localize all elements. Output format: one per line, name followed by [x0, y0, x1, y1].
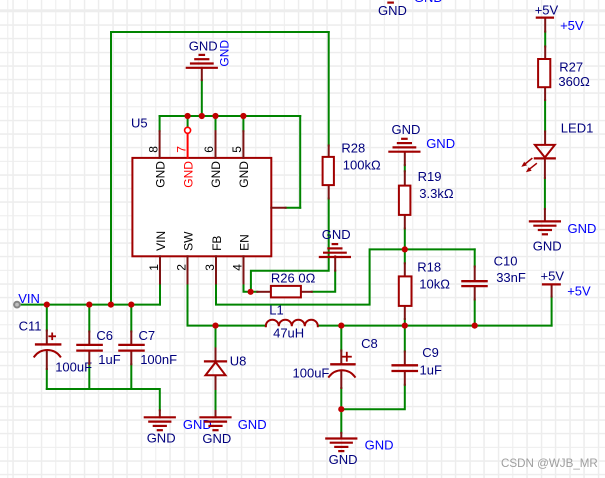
- svg-text:2: 2: [175, 264, 189, 271]
- svg-text:C7: C7: [139, 328, 156, 343]
- svg-text:GND: GND: [237, 161, 251, 188]
- pin 9 pad: [271, 207, 285, 209]
- wire C9 top lead: [404, 326, 406, 352]
- capacitor C6: [77, 328, 120, 367]
- resistor R27: [538, 47, 590, 101]
- inductor L1: [266, 303, 318, 341]
- wire LED column segments: [544, 32, 546, 209]
- net label GND right of U8: [238, 417, 267, 432]
- pin 4: [231, 234, 252, 283]
- wire C6 leads: [88, 305, 90, 389]
- power port +5V top: [535, 2, 559, 31]
- svg-text:10kΩ: 10kΩ: [419, 277, 450, 292]
- svg-text:6: 6: [202, 146, 216, 153]
- svg-text:R18: R18: [417, 260, 441, 275]
- net label GND right of C8 ground: [365, 438, 394, 453]
- junction dots VIN rail: [44, 302, 135, 308]
- svg-text:GND: GND: [365, 438, 394, 453]
- svg-text:C10: C10: [494, 253, 518, 268]
- svg-text:360Ω: 360Ω: [558, 74, 590, 89]
- wire pin6 stub: [215, 116, 217, 131]
- wire C10 leads: [474, 249, 476, 325]
- junction dots bus: [185, 113, 247, 119]
- svg-text:7: 7: [174, 146, 188, 153]
- wire GND bus above U5: [160, 115, 301, 117]
- wire R19 upper gap: [404, 165, 406, 249]
- net label +5V top: [560, 18, 584, 33]
- svg-text:EN: EN: [237, 234, 251, 251]
- pin 2: [175, 231, 196, 284]
- ground symbol below C8: [326, 433, 357, 467]
- pin 6: [202, 131, 223, 188]
- resistor R28: [323, 140, 381, 198]
- svg-text:R19: R19: [418, 169, 442, 184]
- pin 8: [146, 131, 167, 188]
- junction dot EN node: [248, 289, 254, 295]
- capacitor C9: [393, 345, 442, 385]
- wire C8 leads: [340, 326, 342, 433]
- svg-text:3: 3: [203, 264, 217, 271]
- wire output rail: [318, 325, 552, 327]
- svg-text:VIN: VIN: [154, 231, 168, 251]
- wire C11 leads: [46, 305, 48, 389]
- svg-text:47uH: 47uH: [273, 325, 304, 340]
- capacitor C7: [119, 328, 177, 367]
- wire R28 bottom loop to EN: [251, 199, 329, 292]
- wire top horizontal to R28: [111, 31, 329, 33]
- net label VIN with port dot: [14, 291, 40, 307]
- svg-text:C9: C9: [422, 345, 439, 360]
- resistor R18: [399, 260, 450, 320]
- wire SW node pin2: [188, 283, 266, 325]
- svg-text:8: 8: [146, 146, 160, 153]
- svg-text:VIN: VIN: [18, 291, 40, 306]
- svg-text:GND: GND: [147, 431, 176, 446]
- svg-text:C11: C11: [19, 318, 42, 333]
- svg-text:U5: U5: [131, 115, 148, 130]
- svg-text:GND: GND: [218, 40, 232, 67]
- designator U5: [131, 115, 148, 130]
- net label GND rotated: [218, 40, 232, 67]
- svg-text:4: 4: [231, 264, 245, 271]
- svg-text:GND: GND: [322, 227, 351, 242]
- net label GND left of U8: [183, 417, 212, 432]
- svg-text:3.3kΩ: 3.3kΩ: [419, 186, 454, 201]
- net label GND top-right cropped: [414, 0, 443, 5]
- svg-text:GND: GND: [209, 161, 223, 188]
- svg-text:1: 1: [147, 264, 161, 271]
- svg-text:1uF: 1uF: [98, 352, 120, 367]
- ground symbol above R26: [320, 227, 351, 270]
- svg-text:GND: GND: [189, 38, 218, 53]
- wire R26 right to ground: [312, 271, 335, 292]
- wire GND stem above U5: [201, 80, 203, 116]
- wire R28 top drop: [328, 32, 330, 146]
- svg-text:GND: GND: [181, 161, 195, 188]
- svg-text:GND: GND: [426, 136, 455, 151]
- ground symbol below input caps: [145, 410, 176, 445]
- net label GND right of LED ground: [568, 221, 597, 236]
- svg-text:GND: GND: [414, 0, 443, 5]
- svg-text:100kΩ: 100kΩ: [343, 158, 381, 173]
- svg-text:R26 0Ω: R26 0Ω: [271, 271, 316, 286]
- svg-text:100uF: 100uF: [293, 366, 330, 381]
- wire bus to pad pin: [286, 207, 301, 209]
- junction dot C8 ground node: [338, 406, 344, 412]
- svg-text:SW: SW: [181, 231, 195, 251]
- junction dot FB divider node: [402, 246, 408, 252]
- svg-text:+5V: +5V: [535, 2, 559, 17]
- wire +5V branch right: [551, 297, 553, 326]
- net label GND beside R19 ground: [426, 136, 455, 151]
- wire bus right vertical: [299, 116, 301, 208]
- pin 7 with unconnected circle: [174, 127, 195, 187]
- ground symbol top-right cropped: [378, 3, 407, 18]
- wire pin5 stub: [242, 116, 244, 131]
- wire EN pin4: [244, 283, 258, 291]
- wire FB net: [216, 249, 475, 304]
- net label +5V right: [567, 284, 591, 299]
- svg-text:5: 5: [230, 146, 244, 153]
- ground symbol below U8: [201, 411, 232, 446]
- pin 3: [203, 236, 224, 284]
- LED LED1: [521, 121, 593, 179]
- pin 1: [147, 231, 168, 284]
- svg-text:C8: C8: [361, 336, 378, 351]
- junction dots output rail: [212, 323, 477, 329]
- svg-text:CSDN @WJB_MR: CSDN @WJB_MR: [501, 457, 598, 470]
- wire C7 leads: [130, 305, 132, 389]
- svg-text:100nF: 100nF: [140, 352, 177, 367]
- svg-text:GND: GND: [202, 431, 231, 446]
- resistor R19: [399, 169, 454, 228]
- wire VIN rail: [17, 304, 160, 306]
- svg-text:GND: GND: [329, 452, 358, 467]
- op-amp U5 body: [132, 158, 271, 256]
- svg-text:+5V: +5V: [560, 18, 584, 33]
- wire R18 leads: [404, 249, 406, 325]
- svg-text:GND: GND: [533, 239, 562, 254]
- wire U8 branch: [215, 326, 217, 411]
- diode U8: [205, 348, 246, 389]
- power port +5V right: [541, 269, 565, 297]
- svg-text:L1: L1: [269, 303, 283, 318]
- svg-text:FB: FB: [210, 236, 224, 251]
- svg-text:GND: GND: [378, 3, 407, 18]
- svg-text:GND: GND: [392, 122, 421, 137]
- capacitor C11 polarized: [19, 318, 93, 374]
- svg-text:100uF: 100uF: [55, 359, 92, 374]
- capacitor C8 polarized: [293, 336, 378, 388]
- wire pin8 stub: [159, 116, 161, 131]
- ground symbol below LED1: [530, 209, 562, 254]
- svg-text:GND: GND: [238, 417, 267, 432]
- ground symbol above R19: [389, 122, 420, 165]
- svg-text:U8: U8: [230, 354, 247, 369]
- svg-text:GND: GND: [153, 161, 167, 188]
- wire VIN top-left rail vertical: [110, 32, 112, 305]
- svg-text:1uF: 1uF: [420, 362, 442, 377]
- svg-text:GND: GND: [568, 221, 597, 236]
- svg-text:+5V: +5V: [567, 284, 591, 299]
- svg-text:R28: R28: [341, 140, 365, 155]
- pin 5: [230, 131, 251, 188]
- wire C8 to C9 bottom: [341, 385, 405, 409]
- svg-text:C6: C6: [96, 328, 113, 343]
- svg-text:R27: R27: [559, 60, 583, 75]
- resistor R26: [257, 271, 315, 298]
- capacitor C10: [462, 253, 525, 299]
- ground symbol above U5: [187, 38, 218, 80]
- svg-text:+5V: +5V: [541, 269, 565, 284]
- wire pin7 stub: [187, 116, 189, 127]
- wire pin1 to VIN rail: [159, 283, 161, 304]
- wire input cap ground rail: [47, 389, 160, 410]
- svg-text:GND: GND: [183, 417, 212, 432]
- svg-text:LED1: LED1: [561, 121, 594, 136]
- svg-text:33nF: 33nF: [496, 270, 526, 285]
- watermark: [501, 457, 598, 470]
